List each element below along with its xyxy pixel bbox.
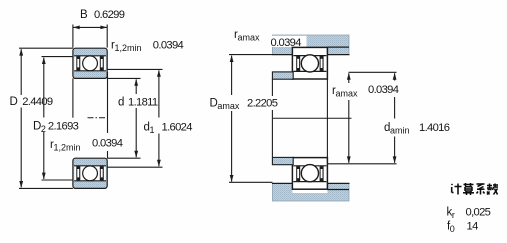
- svg-text:2.2205: 2.2205: [247, 98, 278, 110]
- svg-text:1.6024: 1.6024: [162, 122, 193, 134]
- svg-text:2.1693: 2.1693: [48, 121, 79, 133]
- svg-text:0.6299: 0.6299: [94, 9, 125, 21]
- svg-text:B: B: [80, 9, 88, 21]
- svg-text:2.4409: 2.4409: [22, 96, 53, 108]
- svg-text:0.0394: 0.0394: [368, 84, 399, 96]
- svg-text:d: d: [118, 97, 124, 109]
- svg-text:1.4016: 1.4016: [419, 122, 450, 134]
- svg-text:1.1811: 1.1811: [128, 97, 158, 109]
- svg-text:0.0394: 0.0394: [92, 137, 123, 149]
- svg-text:0.0394: 0.0394: [153, 39, 184, 51]
- svg-text:D: D: [10, 96, 18, 108]
- svg-text:0,025: 0,025: [466, 207, 491, 219]
- svg-text:14: 14: [467, 221, 479, 233]
